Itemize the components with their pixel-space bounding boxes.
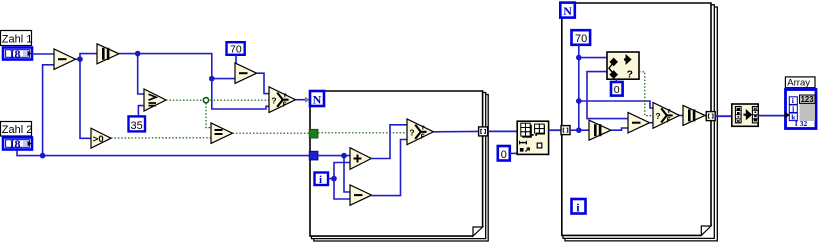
boolean junction ring [203, 98, 208, 103]
for loop 2 corner fold [701, 226, 711, 235]
for loop 2 main frame with folded corner [562, 3, 711, 235]
for loop 1 stacked sheet 2 [312, 93, 486, 239]
loop1 output tunnel [479, 127, 488, 136]
for loop 2 stacked sheet 3 [565, 7, 717, 241]
loop2 output tunnel [706, 112, 715, 121]
wire branch down to greater-equal input [138, 54, 144, 94]
boolean wire green tunnel to select [318, 132, 407, 134]
wire loop1 tunnel to array subset [488, 130, 518, 132]
boolean wire equal output to loop1 green tunnel [233, 132, 310, 134]
junction on abs output [135, 51, 141, 57]
subtract function (Zahl1 - Zahl2) [54, 49, 76, 69]
junction feeding compare icon [576, 55, 582, 61]
wire select output to N terminal [296, 99, 310, 101]
wire subtract output [76, 54, 97, 60]
junction on array wire [576, 127, 582, 133]
wire 0 up to compare icon [615, 79, 617, 82]
svg-text:0: 0 [614, 84, 620, 96]
increment function loop2 [589, 120, 611, 140]
wire branch down to select false input [212, 79, 269, 109]
wire i terminal [329, 178, 335, 180]
svg-text:Zahl 2: Zahl 2 [2, 124, 33, 136]
wire reverse array to Array indicator [758, 115, 785, 117]
wire abs output to the right [119, 54, 235, 79]
gray feed arrow at N [305, 97, 310, 103]
wire loop2 tunnel to reverse array [715, 115, 732, 117]
wire branch Zahl2 up to subtract lower input [43, 65, 54, 156]
wire long to select2 true input [579, 101, 653, 108]
wire subtract to select2 false input [650, 122, 653, 124]
wire select to output tunnel [434, 130, 479, 132]
compare icon node [607, 52, 639, 81]
wire array subset to loop2 tunnel [549, 129, 561, 131]
constant 0 in loop2 [611, 82, 623, 96]
loop1 numeric input tunnel (blue) [309, 151, 318, 160]
wire Zahl1 to subtract [31, 53, 54, 55]
svg-text:35: 35 [131, 120, 143, 132]
wire subtract output to select false [371, 140, 407, 196]
add function in loop1 [350, 148, 371, 170]
constant 35 [129, 116, 146, 131]
junction inside loop1 [341, 153, 347, 159]
constant 70 in loop2 [572, 30, 591, 45]
wire branch down to subtract input [344, 156, 350, 192]
array subset function [517, 121, 548, 154]
subtract function in loop1 [350, 185, 372, 205]
reverse 1d array function [732, 104, 758, 126]
wire to compare icon upper input [579, 57, 607, 59]
absolute value function [97, 44, 119, 64]
for loop 1 count terminal N [310, 91, 324, 106]
subtract function (70 - abs) [235, 63, 257, 83]
for loop 1 stacked sheet 3 [314, 95, 488, 242]
for loop 2 count terminal N [560, 3, 575, 18]
constant 70 (left) [227, 42, 245, 55]
for loop 2 stacked sheet 2 [563, 5, 714, 239]
wire increment2 to output tunnel [705, 115, 707, 117]
wire branch down to greater-than-zero [80, 59, 91, 138]
svg-text:Array: Array [787, 78, 810, 89]
wire select2 to increment2 [680, 115, 684, 117]
loop1 iteration terminal i [315, 173, 329, 187]
svg-text:>0: >0 [93, 134, 104, 145]
wire 70 down into subtract top input [235, 55, 237, 69]
wire i up to add [334, 163, 350, 179]
svg-text:N: N [563, 4, 572, 18]
increment function 2 loop2 [683, 105, 705, 125]
svg-text:Zahl 1: Zahl 1 [2, 33, 33, 45]
wire 0 to array subset [510, 152, 517, 154]
svg-text:123: 123 [801, 95, 815, 104]
svg-text:70: 70 [230, 44, 242, 56]
indicator terminal Array (I32 array) [785, 90, 817, 129]
boolean wire gt0 to equal [111, 137, 211, 139]
select function loop2 [653, 103, 680, 129]
junction before 70-subtract [209, 76, 215, 82]
wire tunnel to increment [570, 129, 589, 131]
control label Zahl 2 [1, 122, 33, 137]
wire to compare icon lower input and subtract [587, 72, 628, 119]
subtract function loop2 [628, 113, 650, 133]
greater-or-equal function [144, 89, 166, 111]
control terminal Zahl 2 (I8) [3, 137, 32, 151]
svg-text:i: i [319, 174, 322, 186]
loop2 array input tunnel [561, 126, 570, 135]
junction at subtract output [77, 56, 83, 62]
boolean wire branch down to equal input [206, 103, 211, 128]
indicator label Array [785, 77, 815, 89]
select function in loop1 [407, 119, 434, 145]
svg-text:?: ? [627, 69, 633, 81]
greater-than-zero function [91, 128, 111, 148]
wire blue tunnel to add [318, 155, 350, 157]
wire increment to subtract lower input [611, 128, 628, 130]
boolean wire compare icon to select2 [639, 72, 653, 116]
equal function [211, 123, 233, 143]
control terminal Zahl 1 (I8) [3, 47, 32, 61]
wire i down to subtract [334, 179, 350, 199]
wire vertical 70 / array feed [578, 46, 580, 131]
wire 35 to greater-equal [138, 106, 144, 116]
for loop 1 main frame with folded corner [310, 91, 483, 236]
junction on Zahl2 wire [40, 153, 46, 159]
control label Zahl 1 [1, 31, 33, 46]
constant 0 (middle) [498, 146, 510, 161]
select function (outside) [269, 87, 296, 113]
svg-text:70: 70 [575, 33, 587, 45]
svg-text:0: 0 [501, 149, 507, 161]
wire add output to select true [371, 125, 407, 159]
loop2 iteration terminal i [572, 199, 586, 214]
wire 70-subtract output to select true input [257, 73, 269, 93]
boolean wire greater-equal output [166, 99, 269, 101]
for loop 1 corner fold [473, 227, 483, 236]
loop1 boolean input tunnel (green) [309, 129, 318, 138]
svg-text:I 32: I 32 [795, 119, 808, 128]
wire Zahl2 down and right to loop1 tunnel [17, 151, 310, 156]
junction feeding select wire [576, 98, 582, 104]
svg-text:N: N [313, 92, 322, 106]
junction on i wire [331, 176, 337, 182]
